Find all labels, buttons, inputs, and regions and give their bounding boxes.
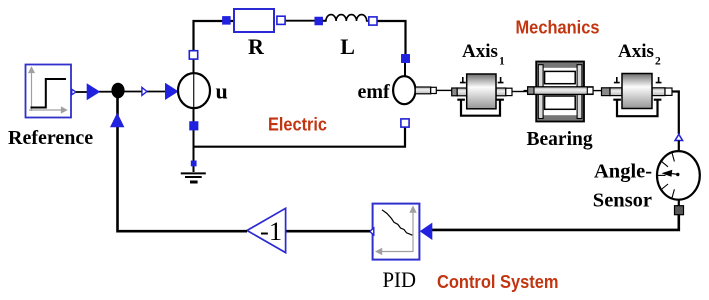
arrow blue solid up into node xyxy=(110,113,124,128)
wire flange to gauge xyxy=(678,141,680,153)
PID icon y-axis xyxy=(410,207,415,252)
wire top-left: u top to resistor xyxy=(194,21,235,59)
svg-text:1: 1 xyxy=(499,56,505,68)
svg-text:Angle-: Angle- xyxy=(594,161,652,183)
Axis2 tick left xyxy=(614,77,620,83)
svg-text:Axis: Axis xyxy=(618,41,654,62)
Axis1 tick left xyxy=(460,77,466,83)
step icon curve xyxy=(31,79,67,108)
wire open triangle to arrow xyxy=(147,91,166,93)
Axis1 left shaft dark cap xyxy=(452,88,458,96)
svg-text:2: 2 xyxy=(655,56,661,68)
Axis1 tick right xyxy=(498,77,504,83)
connector dark square sensor output xyxy=(675,206,684,215)
resistor R xyxy=(234,9,274,32)
Bearing shaft white cap right xyxy=(587,87,593,94)
svg-text:R: R xyxy=(248,34,265,59)
PID icon curve xyxy=(382,210,412,235)
Axis2 tick right xyxy=(656,77,662,83)
wire node to open triangle xyxy=(124,91,142,93)
connector open square u top xyxy=(189,51,197,59)
Bearing bottom roller xyxy=(545,96,576,109)
gauge needle xyxy=(662,170,673,177)
Axis1 right shaft xyxy=(496,88,506,96)
svg-text:u: u xyxy=(216,79,228,104)
wire Axis1 to Bearing xyxy=(512,91,528,93)
emf circle xyxy=(393,76,415,104)
port open triangle (feedback output) xyxy=(142,87,147,95)
port open triangle sensor flange xyxy=(675,134,683,140)
svg-text:-1: -1 xyxy=(260,216,282,246)
Axis1 bracket xyxy=(457,100,504,116)
ground symbol xyxy=(181,173,206,182)
wire Reference to arrow xyxy=(76,91,88,93)
connector open square inductor right xyxy=(369,17,377,25)
arrow blue solid (Reference to node) xyxy=(87,83,101,100)
gain triangle -1 xyxy=(247,208,286,252)
svg-text:Reference: Reference xyxy=(8,127,93,149)
emf shaft right xyxy=(415,87,430,94)
voltage source u vertical line xyxy=(193,74,195,109)
source block Reference (step) xyxy=(26,65,72,118)
connector open square emf bottom xyxy=(401,119,409,127)
Bearing inner white xyxy=(543,68,578,115)
svg-text:Control System: Control System xyxy=(437,271,559,292)
svg-text:Mechanics: Mechanics xyxy=(516,17,600,38)
connector filled square u bottom xyxy=(190,122,199,131)
Axis1 left shaft xyxy=(457,88,467,96)
wire emf top stub xyxy=(404,62,406,77)
svg-text:Bearing: Bearing xyxy=(527,129,593,150)
connector small square ground xyxy=(191,161,196,166)
svg-text:Electric: Electric xyxy=(268,114,327,135)
emf flange white square xyxy=(431,87,437,93)
gauge ticks xyxy=(657,153,674,199)
wire ground stub xyxy=(193,147,195,172)
svg-text:Axis: Axis xyxy=(462,41,498,62)
wire bearing to Axis2 xyxy=(593,90,602,92)
inductor L coil xyxy=(323,15,369,21)
Bearing shaft xyxy=(528,87,593,95)
svg-text:emf: emf xyxy=(358,81,391,103)
gauge center dot xyxy=(676,173,679,176)
Axis2 right flange white xyxy=(665,88,672,95)
wire emf to Axis1 xyxy=(436,89,452,91)
Axis2 left shaft xyxy=(610,88,622,96)
Axis2 right shaft xyxy=(652,88,665,96)
wire Axis2 to sensor xyxy=(672,92,679,135)
wire inductor to corner and down to emf square xyxy=(377,21,406,54)
Bearing top roller xyxy=(545,71,576,83)
wire u bottom xyxy=(193,107,195,147)
connector filled square emf top xyxy=(401,54,409,62)
voltage source u circle xyxy=(178,73,210,108)
Axis1 right flange white xyxy=(506,88,512,95)
PID icon x-axis xyxy=(376,249,413,254)
port open triangle PID output xyxy=(370,228,374,235)
Axis2 left shaft dark cap xyxy=(602,88,611,96)
port triangle Reference output xyxy=(72,89,76,94)
Axis2 cylinder xyxy=(622,74,652,109)
arrow blue solid into PID xyxy=(420,223,433,240)
wire bearing left stub xyxy=(524,90,528,92)
wire gauge bottom xyxy=(678,199,680,207)
svg-text:Sensor: Sensor xyxy=(593,190,652,212)
angle sensor gauge circle xyxy=(657,151,700,200)
svg-text:L: L xyxy=(340,34,355,59)
step icon x-axis xyxy=(29,107,67,112)
svg-text:PID: PID xyxy=(383,267,417,292)
Axis1 cylinder xyxy=(467,74,496,109)
step icon y-axis xyxy=(29,68,34,112)
wire u top stub xyxy=(193,51,195,73)
connector filled square inductor left xyxy=(315,17,323,25)
Bearing left plate xyxy=(538,65,543,119)
wire PID to gain xyxy=(286,230,370,233)
wire gain to feedback corner and up xyxy=(118,97,248,231)
Bearing housing dark xyxy=(536,62,584,122)
wire sensor to PID xyxy=(430,215,679,230)
arrow blue solid (into u source) xyxy=(165,83,179,100)
Bearing right plate xyxy=(577,65,582,119)
Bearing shaft dark cap left xyxy=(528,87,534,94)
wire resistor to inductor xyxy=(285,20,326,22)
Axis2 bracket xyxy=(613,100,661,117)
PID block xyxy=(373,204,420,260)
connector open square resistor right xyxy=(277,16,285,24)
node junction dot xyxy=(111,83,124,99)
wire bottom electric (u to emf) xyxy=(194,127,406,147)
connector filled square resistor left xyxy=(222,16,230,24)
wire arrow to node xyxy=(99,91,113,93)
